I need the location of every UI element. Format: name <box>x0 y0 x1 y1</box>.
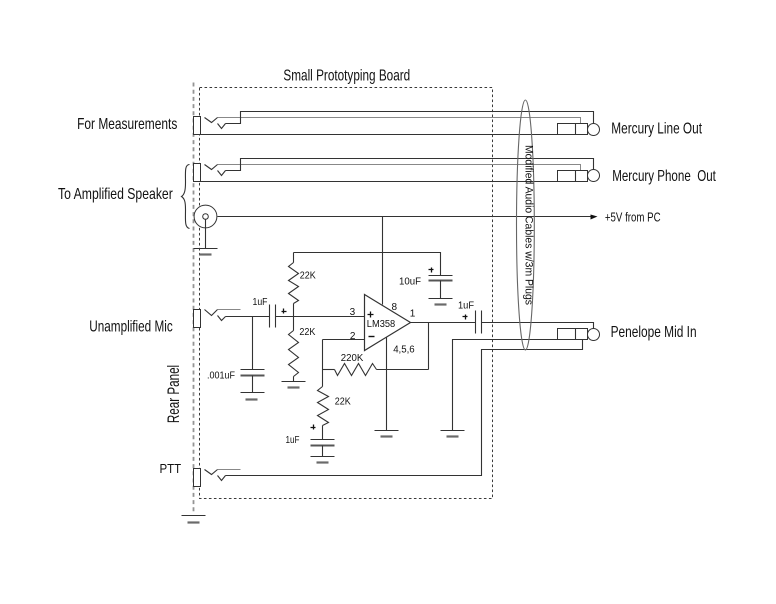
svg-text:To Amplified Speaker: To Amplified Speaker <box>58 186 173 203</box>
svg-text:1uF: 1uF <box>458 301 474 312</box>
svg-text:Unamplified Mic: Unamplified Mic <box>89 318 172 335</box>
svg-text:Penelope Mid In: Penelope Mid In <box>611 324 697 341</box>
svg-text:220K: 220K <box>341 353 364 364</box>
svg-text:2: 2 <box>350 331 356 342</box>
svg-text:1uF: 1uF <box>286 435 300 446</box>
svg-text:4,5,6: 4,5,6 <box>393 345 415 356</box>
svg-text:1uF: 1uF <box>253 297 268 308</box>
svg-text:Modified Audio Cables w/3m Plu: Modified Audio Cables w/3m Plugs <box>522 145 534 305</box>
svg-text:10uF: 10uF <box>399 277 421 288</box>
svg-text:Small Prototyping Board: Small Prototyping Board <box>283 68 410 85</box>
svg-text:8: 8 <box>392 302 398 313</box>
svg-text:22K: 22K <box>335 396 351 407</box>
svg-text:Rear Panel: Rear Panel <box>165 365 183 423</box>
svg-text:22K: 22K <box>300 271 316 282</box>
svg-text:.001uF: .001uF <box>207 370 235 381</box>
svg-text:Mercury Phone Out: Mercury Phone Out <box>612 168 716 185</box>
svg-text:PTT: PTT <box>160 462 182 476</box>
svg-text:3: 3 <box>350 307 356 318</box>
svg-text:+5V from PC: +5V from PC <box>605 210 661 224</box>
svg-text:1: 1 <box>410 309 416 320</box>
svg-text:22K: 22K <box>299 327 315 338</box>
svg-text:Mercury Line Out: Mercury Line Out <box>611 121 702 138</box>
svg-text:For Measurements: For Measurements <box>77 116 177 133</box>
svg-text:LM358: LM358 <box>367 319 396 330</box>
